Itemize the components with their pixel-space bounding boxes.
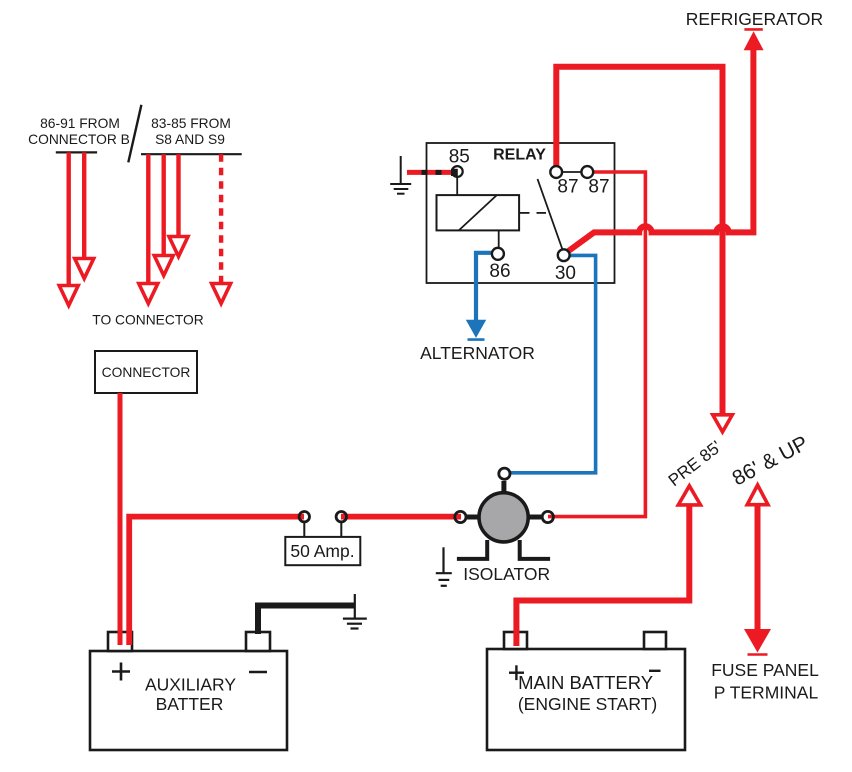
svg-text:83-85 FROM: 83-85 FROM — [151, 116, 231, 131]
svg-text:CONNECTOR: CONNECTOR — [102, 365, 191, 380]
svg-text:86-91 FROM: 86-91 FROM — [40, 116, 120, 131]
svg-text:(ENGINE START): (ENGINE START) — [518, 694, 657, 714]
svg-text:85: 85 — [449, 147, 470, 168]
svg-text:MAIN BATTERY: MAIN BATTERY — [518, 672, 653, 693]
svg-text:30: 30 — [555, 263, 576, 284]
svg-text:BATTER: BATTER — [156, 694, 224, 714]
svg-text:REFRIGERATOR: REFRIGERATOR — [686, 9, 823, 29]
svg-text:FUSE PANEL: FUSE PANEL — [711, 660, 819, 680]
svg-text:AUXILIARY: AUXILIARY — [145, 675, 236, 695]
svg-text:CONNECTOR B: CONNECTOR B — [28, 132, 130, 147]
svg-text:S8 AND S9: S8 AND S9 — [155, 132, 225, 147]
svg-text:87: 87 — [557, 177, 578, 198]
svg-text:86: 86 — [489, 261, 510, 282]
svg-text:50 Amp.: 50 Amp. — [290, 541, 354, 561]
svg-text:87: 87 — [588, 177, 609, 198]
svg-text:RELAY: RELAY — [493, 147, 546, 164]
svg-text:P TERMINAL: P TERMINAL — [714, 683, 819, 703]
svg-text:ALTERNATOR: ALTERNATOR — [420, 343, 535, 363]
svg-text:ISOLATOR: ISOLATOR — [463, 564, 550, 584]
svg-text:TO CONNECTOR: TO CONNECTOR — [92, 313, 203, 328]
